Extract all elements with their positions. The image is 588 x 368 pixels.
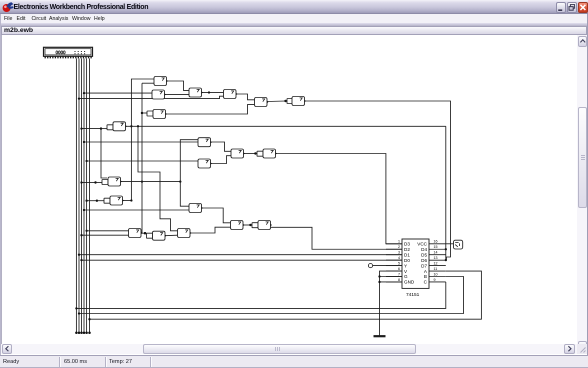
svg-text:6: 6 — [398, 267, 400, 271]
svg-text:7: 7 — [398, 272, 400, 276]
svg-text:1: 1 — [398, 240, 400, 244]
svg-text:10: 10 — [434, 272, 438, 276]
svg-text:14: 14 — [434, 251, 438, 255]
svg-text:D0: D0 — [404, 258, 410, 263]
svg-text:D5: D5 — [421, 252, 427, 257]
svg-text:D6: D6 — [421, 258, 427, 263]
svg-text:16: 16 — [434, 240, 438, 244]
svg-text:9: 9 — [434, 278, 436, 282]
svg-text:D7: D7 — [421, 263, 427, 268]
svg-text:11: 11 — [434, 267, 438, 271]
svg-text:B: B — [424, 274, 427, 279]
svg-text:2: 2 — [398, 245, 400, 249]
svg-text:15: 15 — [434, 245, 438, 249]
svg-text:D1: D1 — [404, 252, 410, 257]
svg-text:8: 8 — [398, 278, 400, 282]
svg-text:12: 12 — [434, 261, 438, 265]
svg-text:G: G — [404, 274, 408, 279]
svg-text:D3: D3 — [404, 242, 410, 247]
svg-text:13: 13 — [434, 256, 438, 260]
svg-text:5: 5 — [398, 261, 400, 265]
svg-text:VCC: VCC — [417, 242, 427, 247]
svg-text:Y: Y — [404, 263, 407, 268]
svg-text:D4: D4 — [421, 247, 427, 252]
svg-text:D2: D2 — [404, 247, 410, 252]
svg-text:3: 3 — [398, 251, 400, 255]
svg-text:GND: GND — [404, 280, 415, 285]
svg-text:4: 4 — [398, 256, 400, 260]
svg-text:74151: 74151 — [406, 292, 420, 298]
